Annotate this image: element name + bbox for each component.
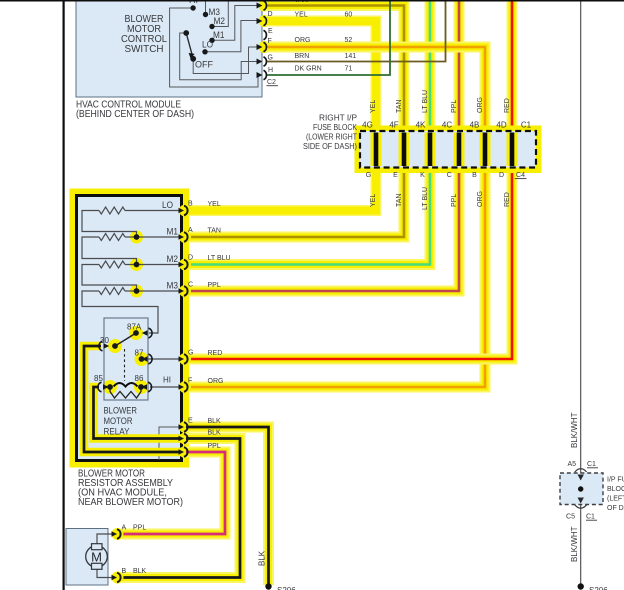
svg-text:87: 87 [135, 349, 144, 358]
resistor R-M3 row [82, 288, 181, 334]
svg-text:D: D [499, 172, 504, 179]
blower motor box [66, 529, 108, 586]
svg-text:ORG: ORG [477, 191, 484, 207]
svg-text:E: E [393, 172, 398, 179]
svg-text:A: A [188, 227, 193, 234]
svg-text:NEAR BLOWER MOTOR): NEAR BLOWER MOTOR) [78, 497, 183, 508]
svg-text:4K: 4K [416, 121, 426, 130]
splice S206 dot [265, 583, 271, 589]
svg-text:C: C [447, 172, 452, 179]
wire: M3 contact lead [205, 0, 207, 15]
right I/P fuse block (pass-through) [355, 126, 542, 174]
svg-text:LT BLU: LT BLU [208, 255, 231, 262]
resistor box pin halos [179, 205, 191, 459]
motor pin labels [122, 525, 147, 576]
svg-text:(LOWER RIGHT: (LOWER RIGHT [306, 133, 357, 142]
rotated wire labels above fuse block [370, 90, 511, 113]
connector C2 arcs and arrows [264, 1, 267, 80]
svg-text:(BEHIND CENTER OF DASH): (BEHIND CENTER OF DASH) [76, 109, 194, 120]
wire: DK GRN 71 (pin H up to top edge) [266, 0, 390, 75]
labels A5 C1 C5 C1 [566, 461, 596, 521]
svg-text:HI: HI [163, 376, 171, 385]
svg-text:G: G [188, 350, 193, 357]
svg-text:60: 60 [345, 12, 353, 19]
label: BLOWER MOTOR RESISTOR ASSEMBLY [78, 469, 183, 509]
motor pin arcs [117, 529, 121, 582]
wire: ORG net (pin F to fuse 4B to relay HI pin F) [186, 47, 485, 387]
svg-text:RED: RED [208, 350, 223, 357]
svg-text:SWITCH: SWITCH [125, 44, 164, 55]
connector C2 pin letters [267, 11, 276, 86]
svg-text:OF DASH): OF DASH) [607, 505, 624, 512]
connector arcs A5 C5 [575, 469, 587, 509]
resistor chain junction halos [103, 231, 149, 395]
svg-text:C1: C1 [586, 514, 595, 521]
wire: LO contact to pin D row [205, 21, 262, 52]
connector C2 highlight halos [259, 0, 271, 53]
relay contact arm 30-87A [115, 333, 136, 346]
frame top line [0, 0, 624, 2]
relay 87 stub to pin G row [142, 358, 182, 360]
svg-text:30: 30 [100, 336, 109, 345]
relay pin arrows [103, 330, 148, 390]
junction dot inside [578, 486, 583, 491]
I/P fuse block C1 dashed box [560, 473, 603, 505]
rotated wire labels below fuse block [370, 187, 511, 210]
svg-text:M1: M1 [167, 227, 179, 237]
wire: pivot feed to pin G row [180, 33, 262, 80]
switch contact dots [183, 5, 214, 61]
svg-text:4G: 4G [362, 121, 373, 130]
svg-text:DK GRN: DK GRN [295, 66, 322, 73]
svg-text:86: 86 [135, 374, 144, 383]
svg-text:OFF: OFF [195, 60, 213, 70]
svg-text:C2: C2 [267, 79, 276, 86]
svg-text:E: E [268, 28, 273, 35]
svg-text:BLK: BLK [258, 550, 267, 566]
resistor box pin arrows [179, 208, 185, 455]
svg-text:D: D [268, 11, 273, 18]
wire: PPL net (top to fuse 4C to resistor pin C) [186, 0, 459, 291]
svg-text:LO: LO [162, 200, 173, 210]
relay coil parallel resistor [110, 387, 141, 398]
svg-text:BLK/WHT: BLK/WHT [570, 412, 579, 448]
wire: BRN 141 (pin G up to top edge) [266, 0, 446, 62]
svg-text:PPL: PPL [133, 525, 146, 532]
svg-text:S206: S206 [589, 586, 608, 590]
svg-text:F: F [188, 378, 192, 385]
svg-text:(LEFT: (LEFT [607, 496, 624, 503]
wire: LT BLU net (top to fuse 4K to resistor pin D) [186, 0, 430, 265]
label: I/P FUSE BLOCK (clipped at right edge) [607, 477, 624, 513]
svg-text:MOTOR: MOTOR [104, 416, 133, 426]
svg-text:FUSE BLOCK: FUSE BLOCK [313, 123, 358, 132]
wire: OFF contact to pin F row [193, 47, 262, 74]
wire: relay 30 black wire to pin PPL row [84, 346, 183, 452]
svg-text:K: K [420, 172, 425, 179]
svg-text:LO: LO [202, 40, 213, 50]
svg-text:M2: M2 [214, 16, 226, 26]
svg-text:87A: 87A [127, 323, 142, 332]
svg-text:4D: 4D [496, 121, 506, 130]
svg-text:LT BLU: LT BLU [422, 187, 429, 210]
resistor box pin letters [188, 201, 193, 425]
svg-text:SIDE OF DASH): SIDE OF DASH) [303, 142, 357, 151]
HVAC control module box [76, 0, 262, 97]
wire: TAN net (M2 row C2 to fuse 4F to resistor pin A) [186, 6, 404, 238]
circuit numbers [345, 12, 357, 73]
resistor row labels [162, 200, 178, 291]
relay terminal labels [94, 323, 171, 385]
svg-text:YEL: YEL [370, 100, 377, 113]
switch arm arrowhead [189, 53, 195, 59]
wire color labels row D F G H [295, 0, 322, 73]
switch position labels [189, 0, 225, 70]
label: RIGHT I/P FUSE BLOCK [303, 114, 358, 152]
svg-text:RED: RED [504, 192, 511, 207]
svg-text:BRN: BRN [295, 53, 310, 60]
svg-text:M2: M2 [167, 254, 179, 264]
svg-text:C4: C4 [516, 172, 525, 179]
fuse block pin labels bottom [366, 172, 525, 179]
wire: PPL to blower motor pin A [122, 452, 225, 534]
svg-text:BLK: BLK [208, 430, 222, 437]
wire: case ground to pin E [159, 427, 181, 460]
svg-text:YEL: YEL [370, 194, 377, 207]
resistor R-LO row [82, 207, 181, 237]
svg-text:4B: 4B [470, 121, 480, 130]
switch arm [186, 33, 193, 59]
svg-text:C: C [188, 282, 193, 289]
svg-text:A: A [122, 525, 127, 532]
svg-text:C1: C1 [521, 121, 532, 130]
svg-text:BLK/WHT: BLK/WHT [570, 526, 579, 562]
wire: YEL net (pin D to fuse 4G to resistor pin B) [186, 21, 376, 211]
motor pin arrows [112, 531, 118, 580]
svg-text:C5: C5 [566, 514, 575, 521]
wire: E pin BLK to splice S206 [186, 427, 269, 585]
relay coil humps [114, 383, 138, 387]
svg-text:YEL: YEL [295, 12, 308, 19]
splice dot right [578, 583, 584, 589]
svg-text:ORG: ORG [477, 97, 484, 113]
resistor box wire color labels [208, 201, 231, 450]
wire: M1 contact to top row [212, 6, 262, 41]
blower motor symbol [86, 534, 112, 578]
wire: HI contact to pin H row [170, 8, 262, 87]
svg-text:B: B [122, 568, 127, 575]
relay actuator dashed link [124, 349, 126, 381]
svg-text:85: 85 [94, 374, 103, 383]
wire: BLK to blower motor pin B [122, 439, 240, 578]
svg-text:BLK: BLK [133, 568, 147, 575]
arrows down [578, 475, 584, 504]
svg-text:M3: M3 [167, 281, 179, 291]
svg-text:4F: 4F [389, 121, 398, 130]
motor pin halos [112, 528, 124, 584]
resistor R-M1 row [82, 234, 181, 265]
wire: BLK/WHT vertical [580, 0, 582, 586]
svg-text:TAN: TAN [208, 228, 221, 235]
label: BLOWER MOTOR RELAY [104, 406, 138, 437]
resistor box pin arcs [184, 206, 188, 457]
svg-text:F: F [268, 38, 272, 45]
svg-text:RED: RED [504, 98, 511, 113]
svg-text:G: G [268, 55, 273, 62]
svg-text:S206: S206 [277, 586, 296, 590]
svg-text:71: 71 [345, 66, 353, 73]
wire: RED net (top to fuse 4D to resistor pin G) [186, 0, 512, 359]
svg-text:PPL: PPL [451, 100, 458, 113]
svg-text:H: H [268, 67, 273, 74]
svg-text:B: B [472, 172, 477, 179]
svg-text:TAN: TAN [396, 194, 403, 207]
svg-text:TAN: TAN [396, 100, 403, 113]
label: HVAC CONTROL MODULE [76, 100, 194, 121]
blower motor relay outline [104, 318, 148, 400]
svg-text:RELAY: RELAY [104, 427, 130, 437]
svg-text:52: 52 [345, 37, 353, 44]
svg-text:4C: 4C [442, 121, 452, 130]
label: BLOWER MOTOR CONTROL SWITCH [121, 14, 167, 55]
resistor R-M2 row [82, 261, 181, 291]
svg-text:C1: C1 [587, 461, 596, 468]
svg-text:G: G [366, 172, 371, 179]
blower motor resistor assembly box [70, 189, 190, 468]
svg-text:YEL: YEL [208, 201, 221, 208]
svg-text:LT BLU: LT BLU [422, 90, 429, 113]
relay contact dots [107, 234, 144, 390]
C4 underline [515, 178, 527, 180]
fuse block pin labels top [362, 121, 531, 130]
svg-text:PPL: PPL [208, 282, 221, 289]
svg-text:M1: M1 [213, 30, 225, 40]
relay 86 HI stub to pin F row [150, 386, 181, 388]
wire: relay 85 black wire to pin BLK row [94, 387, 184, 439]
svg-text:ORG: ORG [295, 37, 311, 44]
svg-text:RIGHT I/P: RIGHT I/P [319, 114, 357, 123]
svg-text:I/P FUSE: I/P FUSE [607, 477, 624, 484]
svg-text:ORG: ORG [208, 378, 224, 385]
connector C2 underline [267, 85, 279, 87]
svg-text:A5: A5 [567, 461, 576, 468]
svg-text:PPL: PPL [208, 443, 221, 450]
svg-text:PPL: PPL [451, 194, 458, 207]
svg-text:M: M [91, 550, 102, 565]
frame left line [63, 0, 65, 590]
svg-text:BLOWER: BLOWER [104, 406, 138, 416]
svg-text:141: 141 [345, 53, 357, 60]
svg-text:BLOCK: BLOCK [607, 486, 624, 493]
svg-text:B: B [188, 201, 193, 208]
relay pin arcs [98, 328, 152, 392]
wire: M2 contact lead to top [212, 0, 228, 27]
svg-text:E: E [188, 418, 193, 425]
svg-text:BLK: BLK [208, 418, 222, 425]
svg-text:D: D [188, 255, 193, 262]
